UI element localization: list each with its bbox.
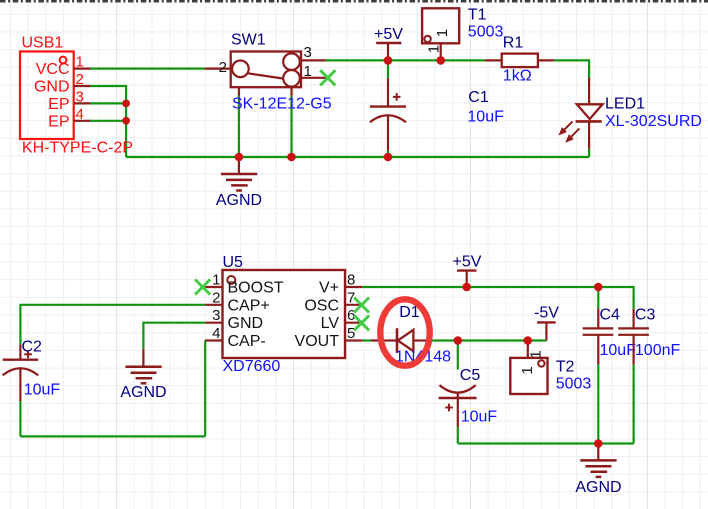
wire C5 top: [457, 341, 459, 370]
wire C2 top to pin2: [20, 305, 205, 345]
capacitor C2: [3, 344, 39, 401]
svg-text:EP: EP: [48, 113, 69, 130]
no-connect X U5 pin7: [354, 298, 369, 313]
svg-text:1: 1: [527, 350, 544, 358]
svg-text:EP: EP: [48, 96, 69, 113]
diode D1: [371, 328, 428, 353]
svg-text:CAP+: CAP+: [228, 297, 270, 314]
power +5V lower: [457, 269, 476, 271]
LED LED1: [560, 78, 602, 149]
capacitor C5: [439, 385, 477, 427]
svg-text:5003: 5003: [468, 24, 504, 41]
capacitor C4: [583, 309, 614, 364]
svg-text:AGND: AGND: [120, 384, 166, 401]
svg-text:CAP-: CAP-: [228, 333, 266, 350]
wire SW1 mount left: [238, 95, 240, 157]
svg-text:XD7660: XD7660: [223, 358, 281, 375]
svg-text:+5V: +5V: [453, 254, 482, 271]
svg-text:C2: C2: [22, 339, 43, 356]
major grid lines: [117, 0, 648, 509]
svg-text:8: 8: [347, 272, 355, 289]
svg-text:SW1: SW1: [231, 32, 266, 49]
svg-text:AGND: AGND: [575, 479, 621, 496]
test point T1: [422, 8, 459, 60]
no-connect X SW1 pin1: [320, 70, 335, 85]
svg-text:LV: LV: [321, 315, 340, 332]
U5 pin numbers 8-5: [347, 272, 355, 343]
wire bottom right rail: [458, 442, 634, 444]
LED1 emission arrows: [560, 122, 579, 141]
U5 pin numbers 1-4: [212, 272, 220, 343]
svg-text:V+: V+: [319, 280, 339, 297]
test point T2: [510, 341, 547, 395]
svg-text:3: 3: [304, 44, 312, 61]
wire EP pin4: [89, 120, 127, 122]
wire LED1 bottom: [588, 149, 590, 157]
power +5V top: [376, 42, 401, 44]
wire C2 bottom: [19, 401, 21, 436]
no-connect X U5 pin6: [354, 315, 369, 330]
ground AGND top: [221, 157, 257, 191]
svg-text:100nF: 100nF: [635, 342, 681, 359]
svg-text:AGND: AGND: [216, 192, 262, 209]
wire VOUT left: [362, 339, 372, 341]
wire bottom rail AGND: [126, 156, 589, 158]
svg-text:10uF: 10uF: [461, 409, 498, 426]
svg-text:1: 1: [76, 54, 84, 71]
svg-text:10uF: 10uF: [600, 342, 637, 359]
no-connect X U5 pin1: [195, 280, 210, 295]
svg-text:4: 4: [76, 106, 84, 123]
wire C1 top: [387, 60, 389, 78]
wire bottom left rail: [20, 435, 205, 437]
junction dots lower: [454, 283, 603, 448]
svg-text:1: 1: [212, 272, 220, 289]
wire C4 top: [597, 287, 599, 309]
connector USB1: [20, 52, 74, 140]
svg-text:GND: GND: [34, 79, 70, 96]
svg-text:U5: U5: [223, 254, 244, 271]
svg-text:C1: C1: [468, 89, 489, 106]
wire V+ rail: [362, 287, 633, 309]
svg-text:10uF: 10uF: [24, 382, 61, 399]
wire C3 bottom: [632, 364, 634, 443]
svg-text:LED1: LED1: [605, 96, 645, 113]
annotation red ellipse around D1: [380, 299, 429, 365]
svg-text:KH-TYPE-C-2P: KH-TYPE-C-2P: [22, 140, 133, 157]
wire GND net vertical: [89, 86, 127, 157]
wire VOUT right: [428, 339, 547, 341]
wire +5V net top: [326, 59, 485, 61]
svg-text:1: 1: [304, 63, 312, 80]
svg-text:5003: 5003: [556, 376, 592, 393]
svg-text:2: 2: [212, 289, 220, 306]
svg-text:3: 3: [76, 88, 84, 105]
switch SW1: [231, 52, 301, 88]
capacitor C1: [370, 78, 406, 150]
svg-text:-5V: -5V: [534, 305, 559, 322]
USB1 pin numbers 1-4: [76, 54, 84, 123]
svg-text:GND: GND: [228, 315, 264, 332]
svg-text:SK-12E12-G5: SK-12E12-G5: [232, 96, 332, 113]
op-amp U5: [205, 270, 362, 358]
wire C1 bottom: [387, 151, 389, 157]
U5 right pin names V+ OSC LV VOUT: [295, 280, 340, 351]
svg-text:VCC: VCC: [36, 61, 70, 78]
resistor R1: [485, 54, 554, 68]
wire SW1 mount right: [290, 95, 292, 157]
svg-text:1: 1: [519, 366, 536, 374]
svg-text:4: 4: [212, 325, 220, 342]
svg-text:XL-302SURD: XL-302SURD: [605, 113, 702, 130]
svg-text:10uF: 10uF: [467, 109, 504, 126]
svg-text:C5: C5: [460, 367, 481, 384]
svg-text:T1: T1: [468, 7, 487, 24]
wire R1 to LED1: [554, 60, 589, 78]
wire EP pin3: [89, 102, 127, 104]
USB1 pin stubs: [74, 69, 90, 121]
svg-text:BOOST: BOOST: [228, 280, 284, 297]
svg-text:1: 1: [426, 45, 443, 53]
wire pin4 down: [204, 341, 206, 437]
top dashed canvas border: [0, 0, 708, 3]
svg-text:2: 2: [219, 59, 227, 76]
power -5V: [537, 321, 556, 323]
svg-text:VOUT: VOUT: [295, 333, 340, 350]
svg-text:+5V: +5V: [374, 26, 403, 43]
wire C5 bottom: [457, 427, 459, 443]
svg-text:5: 5: [347, 325, 355, 342]
svg-text:T2: T2: [556, 359, 575, 376]
svg-text:1: 1: [434, 29, 451, 37]
ground AGND bottom right: [580, 444, 616, 477]
svg-text:OSC: OSC: [304, 297, 339, 314]
junction dots top: [122, 56, 445, 161]
wire pin3 to AGND2: [143, 323, 205, 350]
svg-text:C3: C3: [635, 307, 656, 324]
U5 left pin names BOOST CAP+ GND CAP-: [228, 280, 284, 351]
svg-text:USB1: USB1: [22, 35, 64, 52]
wire C4 bottom: [597, 364, 599, 443]
ground AGND mid: [125, 349, 161, 383]
svg-text:3: 3: [212, 307, 220, 324]
USB1 pin names: [34, 61, 70, 130]
svg-text:C4: C4: [600, 307, 621, 324]
svg-text:2: 2: [76, 71, 84, 88]
capacitor C3: [618, 309, 649, 364]
svg-text:1kΩ: 1kΩ: [503, 68, 532, 85]
svg-text:R1: R1: [503, 35, 524, 52]
wire VCC to SW1 pin2: [90, 67, 205, 69]
